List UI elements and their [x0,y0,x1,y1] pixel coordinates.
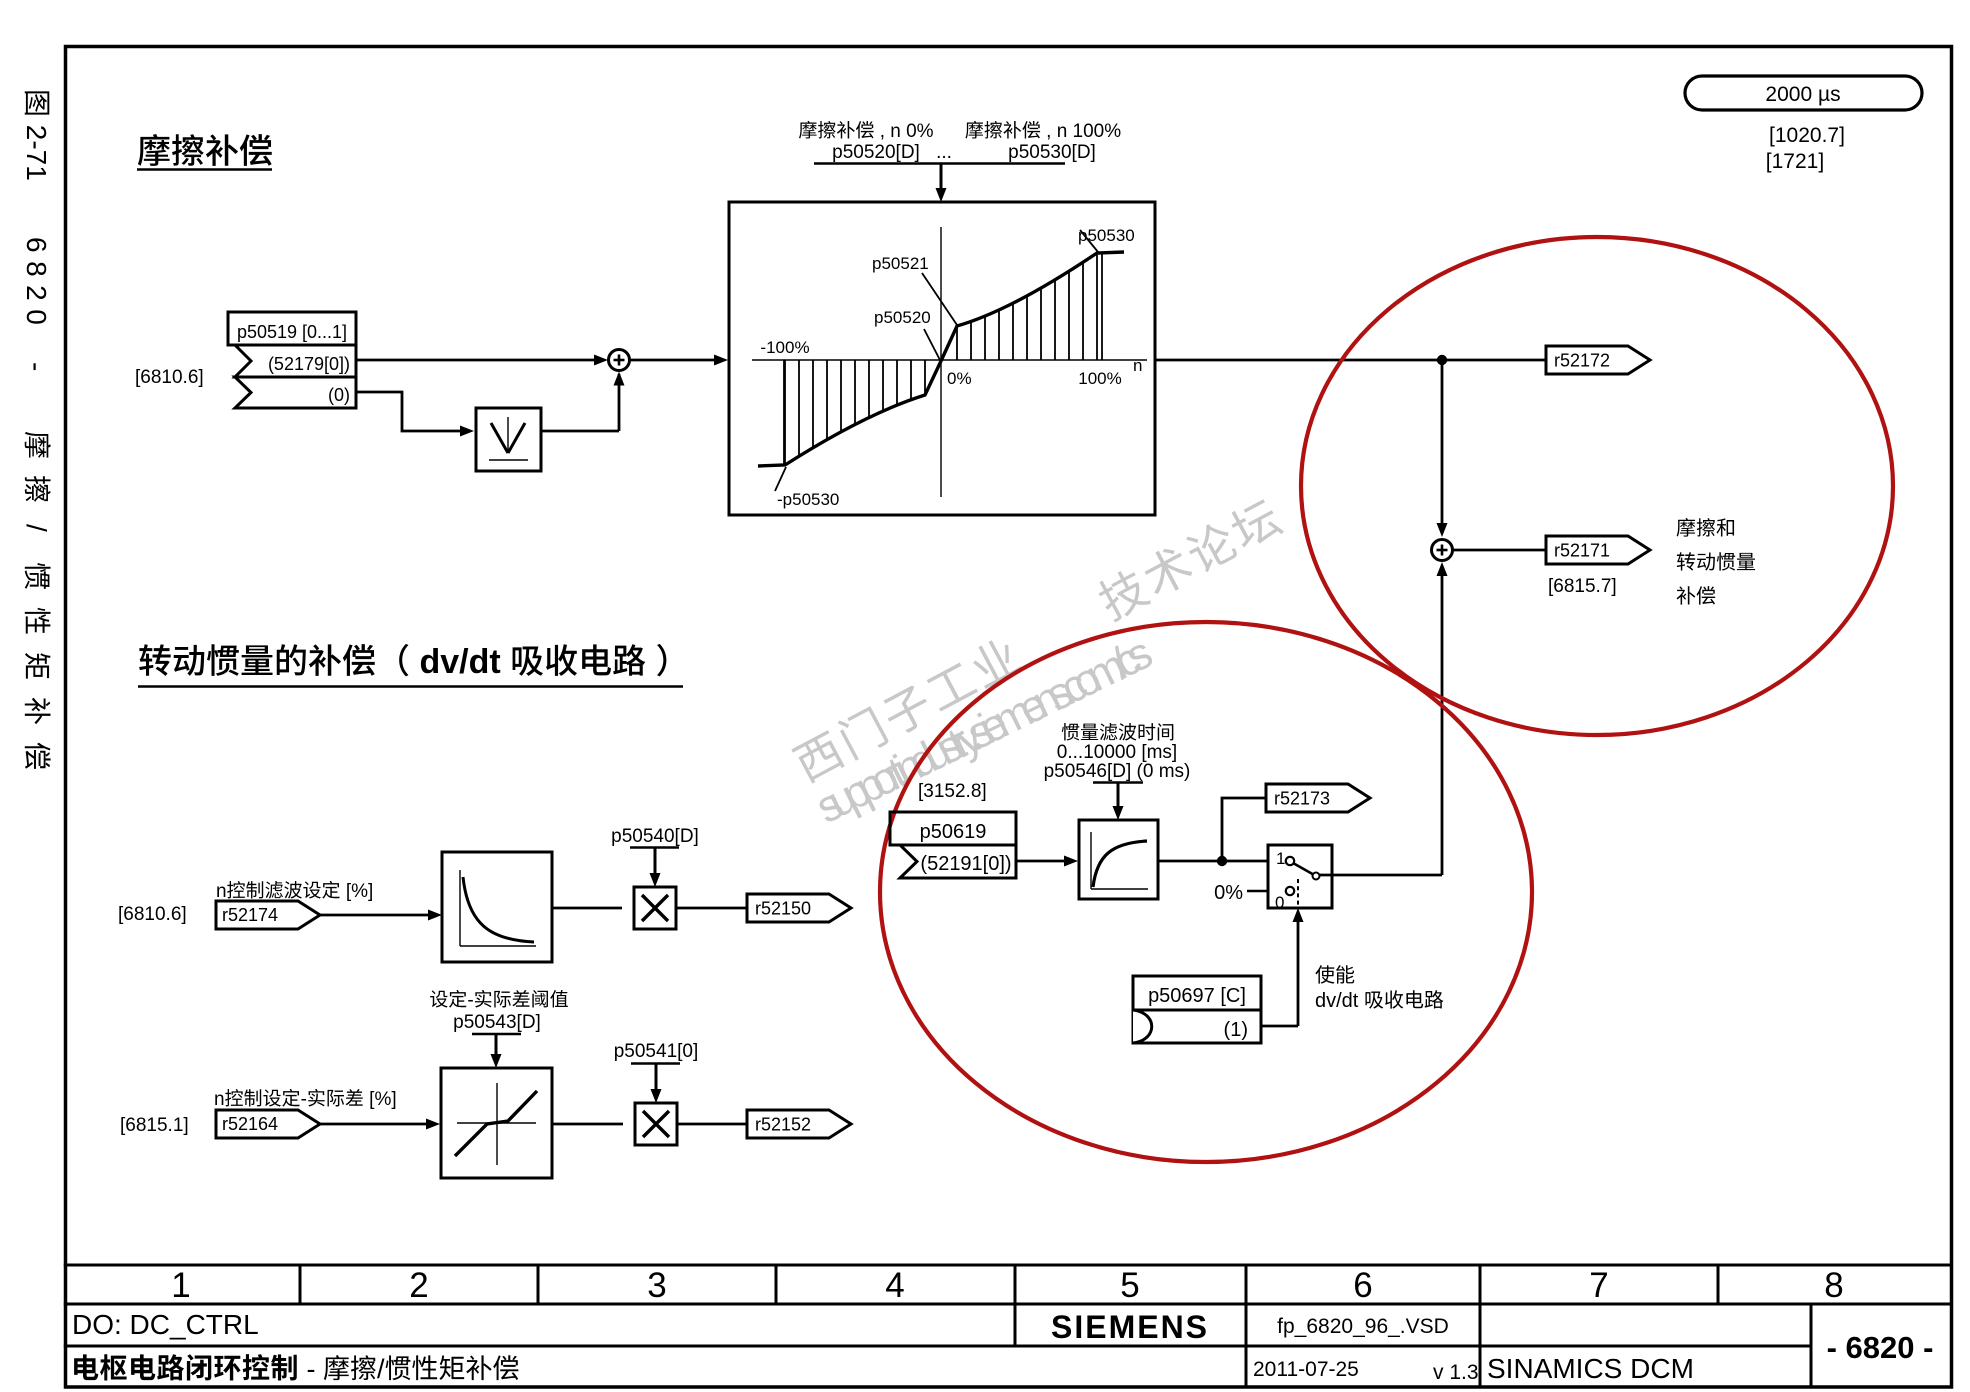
svg-text:r52174: r52174 [222,905,278,925]
svg-text:fp_6820_96_.VSD: fp_6820_96_.VSD [1277,1315,1449,1338]
svg-text:p50546[D] (0 ms): p50546[D] (0 ms) [1044,761,1191,782]
svg-text:8: 8 [1824,1266,1843,1305]
svg-text:r52172: r52172 [1554,350,1610,370]
svg-text:[1721]: [1721] [1766,150,1824,173]
svg-text:r52171: r52171 [1554,540,1610,560]
svg-text:2011-07-25: 2011-07-25 [1253,1358,1359,1381]
svg-text:p50697 [C]: p50697 [C] [1148,985,1246,1007]
svg-text:-: - [301,1089,307,1110]
svg-text:dv/dt: dv/dt [1315,990,1364,1012]
svg-text:6820: 6820 [21,237,52,333]
svg-text:, n 100%: , n 100% [1041,121,1121,142]
svg-text:p50520[D]: p50520[D] [832,142,920,163]
svg-text:[1020.7]: [1020.7] [1769,124,1845,147]
svg-text:(52191[0]): (52191[0]) [920,853,1011,875]
svg-text:dv/dt: dv/dt [410,643,510,681]
svg-text:-p50530: -p50530 [777,490,839,509]
svg-text:0: 0 [1275,893,1284,912]
svg-text:[6810.6]: [6810.6] [118,904,187,925]
svg-text:6: 6 [1353,1266,1372,1305]
svg-text:p50530[D]: p50530[D] [1008,142,1096,163]
svg-text:n: n [1133,356,1142,375]
svg-text:r52150: r52150 [755,898,811,918]
svg-text:-: - [467,990,473,1011]
svg-text:-: - [21,362,52,371]
svg-text:p50521: p50521 [872,254,929,273]
svg-text:DO: DC_CTRL: DO: DC_CTRL [72,1309,259,1340]
svg-text:1: 1 [171,1266,190,1305]
svg-text:/: / [21,524,52,532]
svg-text:p50619: p50619 [920,821,987,843]
svg-text:1: 1 [1276,849,1285,868]
svg-text:/: / [377,1354,385,1384]
svg-text:2-71: 2-71 [21,117,52,181]
svg-text:r52164: r52164 [222,1114,278,1134]
svg-text:100%: 100% [1078,369,1121,388]
svg-text:4: 4 [885,1266,904,1305]
svg-text:2: 2 [409,1266,428,1305]
svg-text:- 6820 -: - 6820 - [1827,1330,1934,1365]
svg-text:0...10000 [ms]: 0...10000 [ms] [1057,742,1177,763]
svg-text:[%]: [%] [341,881,374,902]
svg-text:r52152: r52152 [755,1114,811,1134]
svg-text:SIEMENS: SIEMENS [1051,1309,1209,1345]
svg-text:p50530: p50530 [1078,226,1135,245]
svg-text:-: - [299,1354,323,1384]
svg-text:p50540[D]: p50540[D] [611,826,699,847]
svg-text:[3152.8]: [3152.8] [918,781,987,802]
svg-text:(52179[0]): (52179[0]) [268,354,350,374]
svg-text:p50519 [0...1]: p50519 [0...1] [237,322,347,342]
svg-text:0%: 0% [1214,882,1243,904]
svg-text:p50543[D]: p50543[D] [453,1012,541,1033]
svg-text:(1): (1) [1224,1019,1248,1041]
svg-text:SINAMICS DCM: SINAMICS DCM [1487,1353,1694,1384]
svg-text:p50541[0]: p50541[0] [614,1041,699,1062]
svg-text:[%]: [%] [364,1089,397,1110]
svg-text:[6810.6]: [6810.6] [135,367,204,388]
svg-text:p50520: p50520 [874,308,931,327]
svg-text:0%: 0% [947,369,972,388]
svg-text:2000 µs: 2000 µs [1765,83,1840,106]
svg-text:5: 5 [1120,1266,1139,1305]
svg-text:n: n [216,881,227,902]
svg-text:...: ... [936,142,952,163]
svg-text:n: n [214,1089,225,1110]
svg-text:v 1.3: v 1.3 [1433,1361,1479,1384]
svg-text:7: 7 [1589,1266,1608,1305]
svg-text:r52173: r52173 [1274,788,1330,808]
svg-text:(0): (0) [328,385,350,405]
svg-text:[6815.7]: [6815.7] [1548,576,1617,597]
svg-text:, n 0%: , n 0% [874,121,933,142]
svg-text:3: 3 [647,1266,666,1305]
svg-text:-100%: -100% [760,338,809,357]
svg-text:[6815.1]: [6815.1] [120,1115,189,1136]
